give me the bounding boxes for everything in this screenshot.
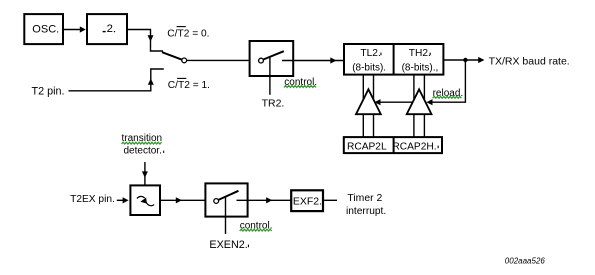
label C/T2 = 0 with overbar [167, 27, 209, 40]
svg-text:(8-bits).: (8-bits). [352, 63, 386, 74]
bus RCAP2H to TH2 vertical lines [414, 75, 425, 137]
wire EXEN2 box to EXF2 with arrowhead [237, 197, 291, 203]
transition detector box [130, 185, 160, 215]
arrowhead into TH2 latch [426, 99, 432, 105]
label TL2 (8-bits) [352, 48, 386, 74]
svg-text:TL2.: TL2. [360, 48, 380, 59]
label TH2 (8-bits) [402, 48, 439, 74]
control box EXEN2 [205, 183, 247, 234]
wire reload feedback down from junction [431, 60, 465, 102]
registers RCAP2L RCAP2H outer box [344, 137, 442, 153]
wire TH2 output to junction and TX/RX arrow [444, 57, 485, 63]
label transition detector with green squiggle [122, 133, 165, 157]
wire detector to EXEN2 box with arrowhead [161, 197, 206, 203]
wire T2EX pin to detector with arrowhead [117, 197, 129, 203]
switch SW1 lever and pivot [162, 52, 187, 63]
svg-text:TH2.: TH2. [409, 48, 431, 59]
svg-text:2: 2 [107, 23, 113, 35]
svg-text:C/T2 = 0.: C/T2 = 0. [167, 28, 209, 39]
svg-text:detector.: detector. [124, 145, 162, 156]
svg-text:(8-bits).,: (8-bits)., [402, 63, 439, 74]
svg-text:TX/RX baud rate.: TX/RX baud rate. [489, 56, 570, 68]
label reload with green squiggle [433, 88, 464, 99]
registers TL2 TH2 outer box [344, 44, 443, 75]
svg-text:interrupt.: interrupt. [346, 206, 386, 217]
wire transition detector top arrow [142, 162, 148, 185]
label Timer 2 interrupt [346, 193, 386, 217]
bus RCAP2L to TL2 vertical lines [363, 75, 373, 137]
flag box EXF2 [291, 190, 323, 211]
wire OSC to div2 with arrowhead [64, 26, 86, 32]
wire div2 to upper switch contact [128, 30, 164, 52]
label T2 pin [32, 85, 65, 97]
svg-text:EXF2.: EXF2. [293, 195, 322, 207]
wire TH2 latch to TL2 latch with arrowhead [374, 99, 413, 105]
svg-text:TR2.: TR2. [262, 98, 285, 110]
svg-text:T2EX pin.: T2EX pin. [70, 194, 115, 205]
block OSC [24, 14, 63, 44]
label C/T2 = 1 with overbar [168, 78, 210, 91]
svg-text:RCAP2L: RCAP2L [347, 141, 387, 152]
wire T2 pin to lower switch contact [69, 69, 164, 91]
control box TR2 [250, 41, 294, 95]
svg-text:T2 pin.: T2 pin. [32, 85, 65, 97]
svg-text:C/T2 = 1.: C/T2 = 1. [168, 80, 210, 91]
label control (lower) with green squiggle [240, 221, 273, 232]
wire TR2 box to TL2 with arrowhead [282, 57, 344, 63]
svg-text:Timer 2: Timer 2 [347, 193, 382, 204]
svg-text:OSC.: OSC. [32, 24, 59, 36]
label control (upper) with green squiggle [284, 77, 317, 88]
svg-text:RCAP2H.: RCAP2H. [392, 141, 436, 152]
svg-text:EXEN2.: EXEN2. [209, 239, 247, 251]
wire switch SW1 to TR2 control box [187, 59, 249, 61]
svg-text:002aaa526: 002aaa526 [505, 256, 546, 265]
wire EXF2 to interrupt label [324, 199, 337, 201]
block divide-by-2 [87, 14, 127, 44]
latch buffer triangle under TL2 [356, 89, 381, 114]
latch buffer triangle under TH2 [407, 89, 432, 114]
